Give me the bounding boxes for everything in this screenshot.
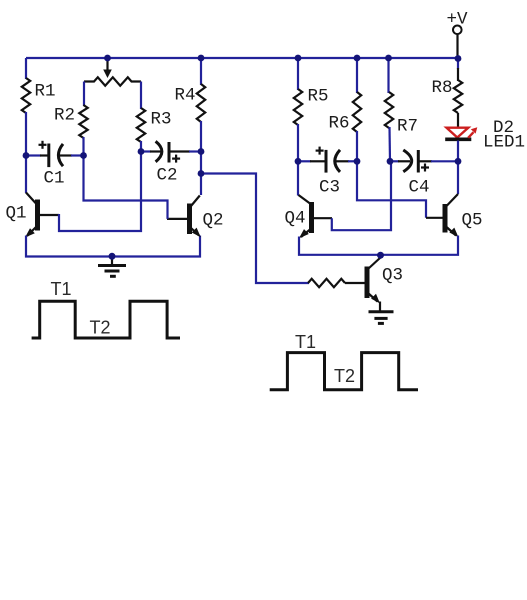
label C2 (157, 166, 178, 186)
svg-text:T1: T1 (51, 279, 72, 299)
label +V (447, 10, 469, 30)
wire pot right end down to R3 (140, 82, 142, 110)
svg-text:T1: T1 (295, 332, 316, 352)
capacitor C4 (390, 150, 458, 173)
resistor R5 (294, 89, 302, 125)
svg-text:R8: R8 (432, 78, 453, 98)
svg-text:+V: +V (447, 10, 469, 30)
svg-text:T2: T2 (90, 318, 111, 338)
svg-text:LED1: LED1 (483, 133, 525, 153)
svg-text:R5: R5 (308, 87, 329, 107)
terminal +V (453, 26, 462, 59)
label Q5 (462, 211, 483, 231)
label C3 (319, 178, 340, 198)
wire cross-couple R6 node to Q5 base (357, 161, 426, 218)
ground left emitter rail (98, 258, 126, 276)
label T1 left waveform (51, 279, 72, 299)
node junction dot R2 bottom / C1 right (80, 152, 87, 159)
node junction dot LED cathode / C4 right (455, 158, 462, 165)
svg-text:Q1: Q1 (6, 204, 27, 224)
waveform right output square wave (270, 353, 418, 390)
svg-text:C4: C4 (409, 178, 430, 198)
svg-text:R7: R7 (397, 117, 418, 137)
LED D2 (445, 127, 477, 139)
wire Q3 emitter to ground (379, 302, 381, 311)
wire R5 top lead from rail (297, 58, 299, 90)
svg-text:R2: R2 (54, 106, 75, 126)
label T2 left waveform (90, 318, 111, 338)
wire Q5 collector from C4 node (457, 161, 459, 194)
wire LED cathode to C4 node (457, 141, 459, 162)
wire top supply rail (26, 57, 458, 59)
label Q4 (285, 209, 306, 229)
ground Q3 emitter (369, 312, 394, 324)
label C4 (409, 178, 430, 198)
waveform left output square wave (32, 301, 180, 338)
resistor R6 (353, 92, 361, 132)
label C1 (44, 169, 65, 189)
wire R6 bottom to C3 node (356, 131, 358, 161)
wire Q4 emitter down and right emitter rail to Q5 emitter (299, 236, 458, 255)
label R6 (329, 114, 350, 134)
node junction dot left ground on emitter rail (109, 253, 116, 260)
wire R1 bottom to Q1 collector (25, 112, 27, 193)
capacitor C2 (141, 141, 201, 162)
svg-text:Q5: Q5 (462, 211, 483, 231)
label T2 right waveform (334, 366, 355, 386)
wire R7 top lead from rail (387, 58, 389, 93)
node junction dot R5 top on rail (295, 55, 302, 62)
label Q3 (382, 266, 403, 286)
node junction dot R3 bottom / C2 left (138, 148, 145, 155)
svg-text:R3: R3 (151, 110, 172, 130)
node junction dot R7 bottom / C4 left (387, 158, 394, 165)
transistor Q1 (25, 193, 59, 238)
svg-text:Q3: Q3 (382, 266, 403, 286)
label Q2 (203, 211, 224, 231)
node junction dot Q2 collector branch (198, 170, 205, 177)
node junction dot R4 bottom / C2 right (198, 148, 205, 155)
wire R1 top lead from rail (25, 58, 27, 79)
svg-text:R1: R1 (35, 82, 56, 102)
wire R5 bottom to C3 node (297, 124, 299, 161)
resistor R2 (79, 105, 87, 138)
label LED1 (483, 133, 525, 153)
transistor Q3 (367, 258, 381, 304)
node junction dot R4 top on rail (198, 55, 205, 62)
svg-text:C2: C2 (157, 166, 178, 186)
label R2 (54, 106, 75, 126)
node junction dot pot wiper on rail (104, 55, 111, 62)
svg-text:Q4: Q4 (285, 209, 306, 229)
potentiometer wiper arrow from rail (103, 58, 112, 78)
wire R4 bottom through C2 node to Q2 collector node (200, 121, 202, 195)
resistor R3 (137, 108, 145, 142)
wire pot left end down to R2 (83, 82, 85, 107)
label R4 (175, 86, 196, 106)
wire Q1 emitter down and bottom rail to Q2 emitter (26, 236, 200, 257)
label R8 (432, 78, 453, 98)
node junction dot +V on rail (455, 55, 462, 62)
node junction dot R6 top on rail (354, 55, 361, 62)
svg-text:R6: R6 (329, 114, 350, 134)
wire R7 bottom to C4 node (388, 127, 391, 161)
wire Q4 collector from C3 node (297, 161, 299, 195)
node junction dot R5 bottom / C3 left (295, 158, 302, 165)
label R3 (151, 110, 172, 130)
label R1 (35, 82, 56, 102)
resistor R1 (22, 78, 30, 113)
capacitor C3 (298, 147, 357, 173)
svg-text:C3: C3 (319, 178, 340, 198)
wire R4 top lead from rail (200, 58, 202, 85)
transistor Q4 (299, 195, 333, 238)
potentiometer body (unlabeled) (84, 77, 141, 85)
transistor Q5 (426, 194, 459, 237)
resistor R4 (197, 84, 205, 122)
wire R2 bottom to C1 node (82, 137, 84, 156)
label Q1 (6, 204, 27, 224)
resistor R8 (454, 68, 462, 128)
label D2 (493, 118, 514, 138)
label T1 right waveform (295, 332, 316, 352)
node junction dot Q3 collector on right emitter rail (377, 252, 384, 259)
svg-text:T2: T2 (334, 366, 355, 386)
node junction dot R7 top on rail (385, 55, 392, 62)
resistor R7 (385, 92, 393, 128)
label R5 (308, 87, 329, 107)
wire R3 bottom to C2 node (140, 141, 142, 152)
transistor Q2 (167, 196, 201, 238)
label R7 (397, 117, 418, 137)
svg-text:R4: R4 (175, 86, 196, 106)
svg-text:C1: C1 (44, 169, 65, 189)
wire R8 top stub from rail (457, 58, 459, 69)
wire cross-couple Q4 base to C4 node (332, 161, 391, 230)
node junction dot R6 bottom / C3 right (354, 158, 361, 165)
capacitor C1 (26, 141, 84, 167)
resistor Q3 base resistor (unlabeled) (308, 279, 365, 287)
wire cross-couple R2 node to Q2 base (84, 155, 168, 219)
wire Q2 collector node to Q3 base resistor (201, 174, 309, 284)
node junction dot Q1 collector / C1 left (23, 152, 30, 159)
wire cross-couple R3 node to Q1 base (59, 151, 141, 232)
svg-text:Q2: Q2 (203, 211, 224, 231)
wire R6 top lead from rail (356, 58, 358, 93)
